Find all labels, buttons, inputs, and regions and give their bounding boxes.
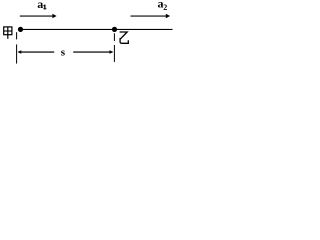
- svg-text:s: s: [61, 46, 66, 58]
- svg-text:a: a: [37, 0, 43, 11]
- svg-text:2: 2: [163, 3, 167, 12]
